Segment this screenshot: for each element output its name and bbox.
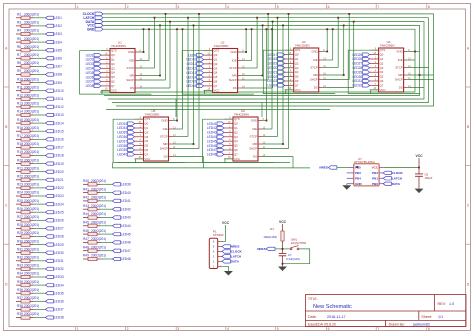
- net tag LED44 at U6: [217, 135, 224, 138]
- svg-text:Q7: Q7: [234, 152, 238, 156]
- pin 6 (Q6) of U2: [204, 81, 213, 83]
- net tag LED17 at U3: [278, 53, 285, 56]
- net tag LED26 at U4: [363, 57, 370, 60]
- wire P1 pin1 to ground: [222, 266, 228, 271]
- pin 15 (Q0) of U3: [285, 54, 294, 56]
- junction C7 ground node: [282, 263, 284, 265]
- svg-text:2: 2: [127, 327, 129, 331]
- wire riser to LATCH bus: [154, 18, 156, 68]
- svg-text:R5: R5: [17, 37, 21, 41]
- junction on GND bus: [143, 28, 145, 30]
- svg-text:7: 7: [377, 327, 379, 331]
- wire R31 to LED30: [34, 252, 46, 254]
- svg-text:R6: R6: [17, 45, 21, 49]
- svg-text:Q2: Q2: [145, 130, 149, 134]
- svg-text:Q6: Q6: [214, 80, 218, 84]
- svg-text:IOE: IOE: [252, 127, 257, 131]
- svg-text:MR: MR: [398, 73, 402, 77]
- pin 1 (Q1) of U5: [135, 127, 144, 129]
- wire U5 VCC drop: [136, 159, 144, 163]
- svg-text:GND: GND: [87, 27, 95, 31]
- junction U1 DS on DATA bus: [169, 21, 171, 23]
- net tag LED12 at U2: [197, 67, 204, 70]
- svg-text:DATA: DATA: [231, 260, 240, 264]
- net tag LED11: [46, 97, 54, 100]
- svg-text:LED17: LED17: [54, 146, 64, 150]
- svg-text:1.0: 1.0: [449, 302, 454, 306]
- svg-text:LED35: LED35: [54, 291, 64, 295]
- svg-text:LED24: LED24: [54, 202, 64, 206]
- svg-text:VCC: VCC: [279, 220, 287, 224]
- wire R48 to LED47: [101, 250, 113, 252]
- resistor R39: [16, 316, 34, 319]
- net tag NRES at P1: [222, 245, 230, 249]
- wire R42 to LED41: [101, 200, 113, 202]
- wire U6 pin to riser: [262, 148, 289, 150]
- svg-text:Q7: Q7: [145, 152, 149, 156]
- svg-text:DS: DS: [164, 155, 168, 159]
- pin 12 (STCP) of U6: [258, 136, 262, 138]
- pin 6 (Q6) of U1: [101, 81, 110, 83]
- svg-text:LED15: LED15: [54, 129, 64, 133]
- pin 6 (Q6) of U3: [285, 80, 294, 82]
- pin 7 (Q7) of U6: [224, 153, 233, 155]
- net tag LED44: [113, 224, 121, 227]
- junction at U1 MR pin: [159, 75, 161, 77]
- svg-text:LED36: LED36: [117, 135, 127, 139]
- resistor R11: [16, 89, 34, 92]
- svg-text:Q0: Q0: [214, 53, 218, 57]
- pin 11 (SHCP) of U5: [169, 148, 173, 150]
- wire R30 to LED29: [34, 244, 46, 246]
- svg-text:LED3: LED3: [54, 32, 62, 36]
- svg-text:6: 6: [328, 5, 330, 9]
- wire U1 DS pin: [139, 87, 170, 89]
- wire U2 DS pin: [242, 87, 273, 89]
- wire riser to LATCH bus: [337, 18, 339, 68]
- net tag DATA at P1: [222, 260, 230, 263]
- pin 7 (Q7) of U4: [370, 84, 379, 86]
- wire riser to CLOCK bus: [348, 14, 350, 80]
- svg-text:LED45: LED45: [207, 139, 217, 143]
- resistor R26: [16, 211, 34, 214]
- pin 11 (SHCP) of U6: [258, 148, 262, 150]
- wire R37 to LED36: [34, 300, 46, 302]
- op IC U4 74HC595N body: [379, 48, 404, 92]
- resistor R44: [83, 216, 101, 219]
- wire riser to GND bus: [148, 29, 150, 60]
- svg-text:LED48: LED48: [121, 257, 131, 261]
- net tag LED1 at U1: [94, 53, 101, 56]
- svg-text:LED26: LED26: [54, 219, 64, 223]
- svg-text:DS: DS: [399, 86, 403, 90]
- svg-text:LED42: LED42: [207, 126, 217, 130]
- pin 10 (MR) of U6: [258, 143, 262, 145]
- pin 2 (Q2) of U1: [101, 63, 110, 65]
- svg-text:SHCP: SHCP: [310, 78, 318, 82]
- wire U7 VCC to C8: [383, 167, 419, 169]
- wire R28 to LED27: [34, 227, 46, 229]
- svg-text:LED21: LED21: [54, 178, 64, 182]
- wire U4 Q7S wrap: [348, 50, 420, 93]
- resistor R22: [16, 178, 34, 181]
- wire under row2 loop: [113, 163, 311, 168]
- pin 5 (Q5) of U1: [101, 76, 110, 78]
- svg-text:100pF: 100pF: [425, 176, 433, 180]
- svg-text:1/1: 1/1: [438, 315, 443, 319]
- net tag CLOCK at P1: [222, 250, 230, 253]
- pin 5 (Q5) of U4: [370, 76, 379, 78]
- svg-text:LED41: LED41: [121, 199, 131, 203]
- svg-text:PB2: PB2: [372, 171, 378, 175]
- pin 2 (Q2) of U5: [135, 131, 144, 133]
- net tag LED45 at U6: [217, 140, 224, 143]
- svg-text:74HC595N: 74HC595N: [295, 44, 310, 48]
- pin 5 (Q5) of U6: [224, 145, 233, 147]
- svg-text:MR: MR: [313, 73, 317, 77]
- pin 7 (Q7) of U5: [135, 153, 144, 155]
- svg-text:LED13: LED13: [54, 113, 64, 117]
- ground at C7: [278, 267, 287, 272]
- wire riser to CLOCK bus: [267, 14, 269, 80]
- net tag LED5: [46, 49, 54, 52]
- wire R49 to LED48: [101, 258, 113, 260]
- wire U4 pin to bus wrap: [408, 79, 434, 81]
- capacitor C8 100pF: [418, 168, 420, 174]
- svg-text:VCC: VCC: [295, 88, 301, 92]
- svg-text:LED16: LED16: [54, 138, 64, 142]
- net tag LED22: [46, 186, 54, 189]
- svg-text:R2: R2: [17, 13, 21, 17]
- net tag LED34 at U5: [128, 126, 135, 129]
- net tag LED27: [46, 227, 54, 230]
- wire R8 to LED7: [34, 65, 46, 67]
- svg-text:LED39: LED39: [117, 148, 127, 152]
- net tag LED24 at U3: [278, 84, 285, 87]
- net tag LED43 at U6: [217, 131, 224, 134]
- svg-text:EasyEDA V5.8.20: EasyEDA V5.8.20: [308, 322, 336, 326]
- wire R32 to LED31: [34, 260, 46, 262]
- wire U1 pin to riser: [139, 51, 144, 53]
- svg-text:LED31: LED31: [54, 259, 64, 263]
- wire U3 pin to riser: [323, 74, 344, 76]
- pin 16 (VCC) of U5: [135, 158, 144, 160]
- svg-text:Q7S: Q7S: [234, 117, 240, 121]
- net tag LED36 at U5: [128, 135, 135, 138]
- net tag LED24: [46, 202, 54, 205]
- wire U4 pin to bus wrap: [408, 67, 429, 69]
- svg-text:LED1: LED1: [86, 53, 94, 57]
- wire U3 DS riser: [353, 22, 355, 88]
- net tag LED7 at U1: [94, 80, 101, 83]
- net tag LED19: [46, 162, 54, 165]
- svg-text:LED38: LED38: [54, 316, 64, 320]
- pin 9 (Q7S) of U2: [204, 50, 213, 52]
- svg-text:LED10: LED10: [54, 89, 64, 93]
- junction on LATCH bus: [187, 17, 189, 19]
- pin 4 (Q4) of U1: [101, 72, 110, 74]
- junction VCC/C8: [418, 167, 420, 169]
- svg-text:4: 4: [227, 5, 229, 9]
- wire U3 pin to riser: [323, 67, 339, 69]
- wire drop to U6 region: [261, 103, 263, 118]
- svg-text:LED18: LED18: [54, 154, 64, 158]
- net tag LED28: [46, 235, 54, 238]
- svg-text:Q2: Q2: [111, 62, 115, 66]
- net tag LED9: [46, 81, 54, 84]
- svg-text:Q7: Q7: [214, 84, 218, 88]
- pin 12 (STCP) of U2: [238, 67, 242, 69]
- wire riser to CLOCK bus: [165, 14, 167, 80]
- svg-text:LED9: LED9: [188, 53, 196, 57]
- svg-text:New Schematic: New Schematic: [313, 304, 352, 310]
- wire R23 to LED22: [34, 187, 46, 189]
- svg-text:VCC: VCC: [145, 157, 151, 161]
- resistor R46: [83, 232, 101, 235]
- svg-text:74HC595N: 74HC595N: [234, 113, 249, 117]
- net tag LED31 at U4: [363, 79, 370, 82]
- svg-text:STCP: STCP: [250, 135, 258, 139]
- svg-text:NRES: NRES: [257, 247, 266, 251]
- resistor R37: [16, 300, 34, 303]
- net tag LED29 at U4: [363, 71, 370, 74]
- net tag LED10: [46, 89, 54, 92]
- net tag LED15 at U2: [197, 80, 204, 83]
- svg-text:LED44: LED44: [207, 135, 217, 139]
- net tag LED40: [113, 191, 121, 194]
- pin 15 (Q0) of U6: [224, 123, 233, 125]
- pin 7 (Q7) of U3: [285, 84, 294, 86]
- resistor R27: [16, 219, 34, 222]
- op IC U1 74HC595N body: [110, 49, 135, 93]
- svg-text:LED8: LED8: [86, 84, 94, 88]
- svg-text:GND: GND: [161, 119, 167, 123]
- pin 13 (IOE) of U2: [238, 60, 242, 62]
- pin 9 (Q7S) of U3: [285, 49, 294, 51]
- svg-text:LED39: LED39: [121, 183, 131, 187]
- pin 2 (Q2) of U3: [285, 62, 294, 64]
- svg-text:LATCH: LATCH: [392, 177, 403, 181]
- wire R38 to LED37: [34, 308, 46, 310]
- pin 1 (Q1) of U3: [285, 58, 294, 60]
- resistor R28: [16, 227, 34, 230]
- svg-text:Sheet:: Sheet:: [421, 315, 432, 319]
- resistor R40: [83, 183, 101, 186]
- svg-text:Q0: Q0: [380, 53, 384, 57]
- wire U6 DS drop: [292, 157, 294, 168]
- junction on GND bus: [148, 28, 150, 30]
- svg-text:R7: R7: [17, 53, 21, 57]
- junction on GND bus: [326, 28, 328, 30]
- wire U3 DS pin: [323, 87, 354, 89]
- svg-text:Q7: Q7: [111, 84, 115, 88]
- pin 1 (Q1) of U2: [204, 59, 213, 61]
- net tag LED23 at U3: [278, 79, 285, 82]
- wire P1 pin6 to VCC: [222, 241, 226, 243]
- svg-text:6: 6: [328, 327, 330, 331]
- pin 8 (GND) of U4: [404, 51, 408, 53]
- svg-text:DS: DS: [253, 155, 257, 159]
- svg-text:DATA: DATA: [392, 182, 401, 186]
- svg-text:Q5: Q5: [295, 75, 299, 79]
- net tag LED11 at U2: [197, 62, 204, 65]
- wire U7 GND down: [346, 184, 348, 186]
- wire U4 VCC drop: [371, 90, 379, 94]
- pin 1 (Q1) of U6: [224, 127, 233, 129]
- svg-text:Q7S: Q7S: [295, 48, 301, 52]
- wire riser to CLOCK bus: [198, 14, 200, 149]
- svg-text:VCC: VCC: [234, 157, 240, 161]
- net tag LED48 at U6: [217, 153, 224, 156]
- wire riser to GND bus: [176, 29, 178, 120]
- svg-text:LED36: LED36: [54, 300, 64, 304]
- svg-text:VCC: VCC: [372, 166, 379, 170]
- wire R12 to LED11: [34, 98, 46, 100]
- svg-text:LED47: LED47: [207, 148, 217, 152]
- pin 10 (MR) of U1: [135, 75, 139, 77]
- pin 10 (MR) of U4: [404, 74, 408, 76]
- junction on GND bus: [332, 28, 334, 30]
- svg-text:Q3: Q3: [234, 135, 238, 139]
- svg-text:LED34: LED34: [117, 126, 127, 130]
- svg-text:LED5: LED5: [54, 48, 62, 52]
- svg-text:Q5: Q5: [234, 144, 238, 148]
- svg-text:LED45: LED45: [121, 232, 131, 236]
- wire U4 pin to bus wrap: [408, 59, 415, 61]
- junction on GND bus: [182, 28, 184, 30]
- svg-text:Q3: Q3: [214, 66, 218, 70]
- pin 8 (GND) of U5: [169, 120, 173, 122]
- svg-text:Q2: Q2: [295, 61, 299, 65]
- pin 13 (IOE) of U6: [258, 128, 262, 130]
- svg-text:LED40: LED40: [121, 191, 131, 195]
- svg-text:Q7: Q7: [380, 83, 384, 87]
- wire U6 VCC drop: [225, 159, 233, 163]
- wire R44 to LED43: [101, 217, 113, 219]
- svg-text:Q1: Q1: [145, 126, 149, 130]
- wire R18 to LED17: [34, 146, 46, 148]
- svg-text:LED12: LED12: [54, 105, 64, 109]
- junction on GND bus: [245, 28, 247, 30]
- svg-text:Q1: Q1: [111, 58, 115, 62]
- svg-text:LED7: LED7: [86, 80, 94, 84]
- svg-text:Q1: Q1: [295, 57, 299, 61]
- wire R20 to LED19: [34, 163, 46, 165]
- wire to SW1: [283, 248, 290, 250]
- svg-text:R3: R3: [17, 21, 21, 25]
- pin PB3 of U7: [347, 172, 354, 174]
- pin 4 (Q4) of U6: [224, 140, 233, 142]
- wire U3 pin to riser: [323, 59, 333, 61]
- net tag LED30 at U4: [363, 75, 370, 78]
- svg-text:Q5: Q5: [380, 75, 384, 79]
- net tag CLOCK at U7: [383, 171, 391, 174]
- wire U5 pin to riser: [173, 136, 189, 138]
- svg-text:LED27: LED27: [54, 227, 64, 231]
- junction on GND bus: [266, 28, 268, 30]
- svg-text:GND: GND: [230, 50, 236, 54]
- svg-text:LED23: LED23: [54, 194, 64, 198]
- resistor R7: [16, 57, 34, 60]
- net tag LED17: [46, 146, 54, 149]
- junction on CLOCK bus: [198, 13, 200, 15]
- wire R39 to LED38: [34, 317, 46, 319]
- pin 2 (Q2) of U2: [204, 63, 213, 65]
- svg-text:8: 8: [428, 5, 430, 9]
- svg-text:LED20: LED20: [268, 66, 278, 70]
- svg-text:LED17: LED17: [268, 53, 278, 57]
- net tag LATCH at U7: [383, 177, 391, 180]
- svg-text:8: 8: [428, 327, 430, 331]
- junction at U3 MR pin: [343, 74, 345, 76]
- svg-text:Q4: Q4: [111, 71, 115, 75]
- wire R13 to LED12: [34, 106, 46, 108]
- junction on VCC bus: [159, 25, 161, 27]
- wire U4 pin to bus wrap: [408, 87, 424, 89]
- wire under row1 extra: [106, 109, 330, 111]
- net tag LED2: [46, 24, 54, 27]
- svg-text:Q2: Q2: [214, 62, 218, 66]
- net tag LED28 at U4: [363, 66, 370, 69]
- wire U3 pin to riser: [323, 79, 350, 81]
- svg-text:LED7: LED7: [54, 65, 62, 69]
- svg-text:VCC: VCC: [380, 88, 386, 92]
- svg-text:LED30: LED30: [54, 251, 64, 255]
- junction at U6 MR pin: [282, 143, 284, 145]
- net tag LED14 at U2: [197, 75, 204, 78]
- svg-text:7: 7: [377, 5, 379, 9]
- net tag LED10 at U2: [197, 58, 204, 61]
- net tag LED18: [46, 154, 54, 157]
- junction at U3 GND pin: [326, 51, 328, 53]
- wire R47 to LED46: [101, 241, 113, 243]
- wire SW1 to ground node: [283, 249, 310, 264]
- resistor R15: [16, 121, 34, 124]
- junction U2 DS on DATA bus: [272, 21, 274, 23]
- net tag LED4 at U1: [94, 67, 101, 70]
- net tag LATCH at P1: [222, 255, 230, 259]
- wire U1 pin to riser: [139, 67, 155, 69]
- pin 3 (Q3) of U6: [224, 136, 233, 138]
- svg-text:R4: R4: [17, 29, 21, 33]
- svg-text:LED32: LED32: [54, 267, 64, 271]
- wire U2 pin to riser: [242, 67, 258, 69]
- svg-text:GND: GND: [355, 182, 363, 186]
- pin 12 (STCP) of U3: [319, 67, 323, 69]
- net tag LED42 at U6: [217, 126, 224, 129]
- svg-text:IOE: IOE: [313, 58, 318, 62]
- pin 4 (Q4) of U3: [285, 71, 294, 73]
- resistor R3: [16, 24, 34, 27]
- pin 14 (DS) of U1: [135, 87, 139, 89]
- svg-text:3: 3: [177, 327, 179, 331]
- wire U1 pin to riser: [139, 79, 166, 81]
- svg-text:Q2: Q2: [380, 61, 384, 65]
- svg-text:IOE: IOE: [163, 127, 168, 131]
- resistor R34: [16, 275, 34, 278]
- wire R11 to LED10: [34, 90, 46, 92]
- wire U6 pin to riser: [262, 136, 278, 138]
- wire U1 Q7S wrap: [80, 51, 152, 94]
- wire VCC bus: [103, 25, 420, 95]
- svg-text:LED33: LED33: [117, 122, 127, 126]
- pin 3 (Q3) of U1: [101, 67, 110, 69]
- wire riser to GND bus: [245, 29, 247, 52]
- svg-text:ATTINY85-20SU: ATTINY85-20SU: [354, 160, 375, 164]
- net tag LED39: [113, 183, 121, 186]
- wire R34 to LED33: [34, 276, 46, 278]
- pin 8 (GND) of U2: [238, 51, 242, 53]
